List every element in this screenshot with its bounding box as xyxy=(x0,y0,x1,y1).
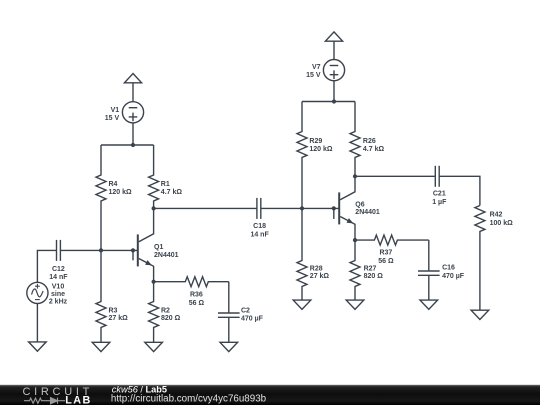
svg-text:120 kΩ: 120 kΩ xyxy=(309,146,333,153)
wire C16 to ground xyxy=(428,275,430,300)
svg-text:15 V: 15 V xyxy=(105,115,120,122)
svg-text:120 kΩ: 120 kΩ xyxy=(109,189,133,196)
resistor R1 xyxy=(149,145,159,208)
wire top rail stage 2 xyxy=(302,101,355,103)
svg-text:Q1: Q1 xyxy=(154,244,163,251)
voltage source V1 xyxy=(122,102,143,123)
resistor R26 xyxy=(350,102,360,177)
svg-text:15 V: 15 V xyxy=(306,72,321,79)
svg-text:R42: R42 xyxy=(490,212,503,219)
svg-text:56 Ω: 56 Ω xyxy=(378,258,394,265)
ground below R3 xyxy=(92,342,110,351)
resistor R36 xyxy=(154,277,229,287)
resistor R28 xyxy=(297,208,307,300)
svg-text:C2: C2 xyxy=(241,307,250,314)
node rail/V7 junction xyxy=(332,99,336,103)
resistor R37 xyxy=(355,235,429,245)
svg-text:2N4401: 2N4401 xyxy=(154,252,179,259)
resistor R2 xyxy=(149,282,159,343)
ground below C16 xyxy=(420,300,438,309)
wire C18 to Q6 base xyxy=(261,207,339,209)
svg-text:C18: C18 xyxy=(253,223,266,230)
wire V10 to ground xyxy=(36,304,38,342)
svg-text:14 nF: 14 nF xyxy=(250,232,269,239)
wire stub below Q6 base xyxy=(333,208,335,219)
svg-text:4.7 kΩ: 4.7 kΩ xyxy=(161,189,183,196)
svg-text:820 Ω: 820 Ω xyxy=(364,273,384,280)
voltage source V7 xyxy=(323,60,344,81)
wire collector Q1 to C18 xyxy=(154,207,257,209)
capacitor C16 xyxy=(418,271,440,275)
svg-text:1 µF: 1 µF xyxy=(432,199,447,206)
resistor R4 xyxy=(96,145,106,250)
resistor R3 xyxy=(96,250,106,342)
power flag for V7 xyxy=(325,32,342,60)
svg-text:2 kHz: 2 kHz xyxy=(49,299,68,306)
wire top rail stage 1 xyxy=(101,144,154,146)
node Q6 emitter junction xyxy=(353,238,357,242)
wire V1 to rail xyxy=(132,123,134,145)
wire base stage 1 xyxy=(60,249,137,251)
svg-text:820 Ω: 820 Ω xyxy=(161,315,181,322)
power flag for V1 xyxy=(124,74,141,103)
svg-text:R4: R4 xyxy=(109,181,118,188)
svg-text:27 kΩ: 27 kΩ xyxy=(109,315,129,322)
node base/R4/R3 junction xyxy=(99,248,103,252)
svg-text:470 µF: 470 µF xyxy=(241,315,264,322)
node rail/V1 junction xyxy=(131,143,135,147)
svg-text:http://circuitlab.com/cvy4yc76: http://circuitlab.com/cvy4yc76u893b xyxy=(111,394,267,405)
svg-text:100 kΩ: 100 kΩ xyxy=(490,220,514,227)
footer bar xyxy=(0,385,540,405)
node Q6 collector xyxy=(353,174,357,178)
wire V10 to C12 xyxy=(37,250,56,282)
svg-text:R26: R26 xyxy=(363,138,376,145)
transistor Q1 xyxy=(138,208,154,281)
svg-text:27 kΩ: 27 kΩ xyxy=(310,273,330,280)
svg-text:C16: C16 xyxy=(442,265,455,272)
ground below R42 xyxy=(471,310,489,319)
resistor R27 xyxy=(350,240,360,300)
svg-text:C12: C12 xyxy=(52,266,65,273)
wire Q6 collector to C21 xyxy=(355,175,435,177)
svg-text:R36: R36 xyxy=(190,292,203,299)
wire C2 to ground xyxy=(228,317,230,342)
wire R37 to C16 xyxy=(428,240,430,271)
svg-text:LAB: LAB xyxy=(65,395,91,405)
svg-text:2N4401: 2N4401 xyxy=(355,209,380,216)
capacitor C18 xyxy=(257,198,261,219)
svg-text:R28: R28 xyxy=(310,265,323,272)
svg-text:V1: V1 xyxy=(111,107,120,114)
CircuitLab logo wire with resistor and diode xyxy=(24,398,65,404)
svg-text:R27: R27 xyxy=(364,265,377,272)
wire stub below Q1 base xyxy=(132,250,134,260)
ground below R28 xyxy=(293,300,311,309)
svg-text:V10: V10 xyxy=(52,283,65,290)
node base stub junction Q6 xyxy=(332,206,336,210)
svg-text:Q6: Q6 xyxy=(355,201,364,208)
node base stub junction xyxy=(131,248,135,252)
voltage source V10 xyxy=(27,282,48,303)
transistor Q6 xyxy=(339,176,355,240)
capacitor C21 xyxy=(435,166,439,187)
svg-text:sine: sine xyxy=(51,291,65,298)
svg-text:R2: R2 xyxy=(161,307,170,314)
svg-text:C21: C21 xyxy=(433,191,446,198)
resistor R29 xyxy=(297,102,307,209)
ground below V10 xyxy=(29,342,47,351)
svg-text:R29: R29 xyxy=(309,138,322,145)
node base/R29/R28 junction xyxy=(300,206,304,210)
svg-text:R1: R1 xyxy=(161,181,170,188)
node Q1 emitter junction xyxy=(152,280,156,284)
resistor R42 xyxy=(475,206,485,311)
svg-text:R3: R3 xyxy=(109,307,118,314)
capacitor C2 xyxy=(218,313,240,317)
svg-text:R37: R37 xyxy=(379,249,392,256)
svg-text:56 Ω: 56 Ω xyxy=(189,300,205,307)
ground below R2 xyxy=(145,342,163,351)
svg-text:470 µF: 470 µF xyxy=(442,273,465,280)
capacitor C12 xyxy=(57,240,61,261)
ground below R27 xyxy=(346,300,364,309)
node Q1 collector xyxy=(152,206,156,210)
wire V7 to rail xyxy=(333,80,335,101)
wire R36 to C2 xyxy=(228,282,230,313)
svg-text:14 nF: 14 nF xyxy=(49,274,68,281)
svg-text:4.7 kΩ: 4.7 kΩ xyxy=(363,146,385,153)
svg-text:V7: V7 xyxy=(312,64,321,71)
wire C21 to R42 xyxy=(439,176,480,205)
ground below C2 xyxy=(220,342,238,351)
